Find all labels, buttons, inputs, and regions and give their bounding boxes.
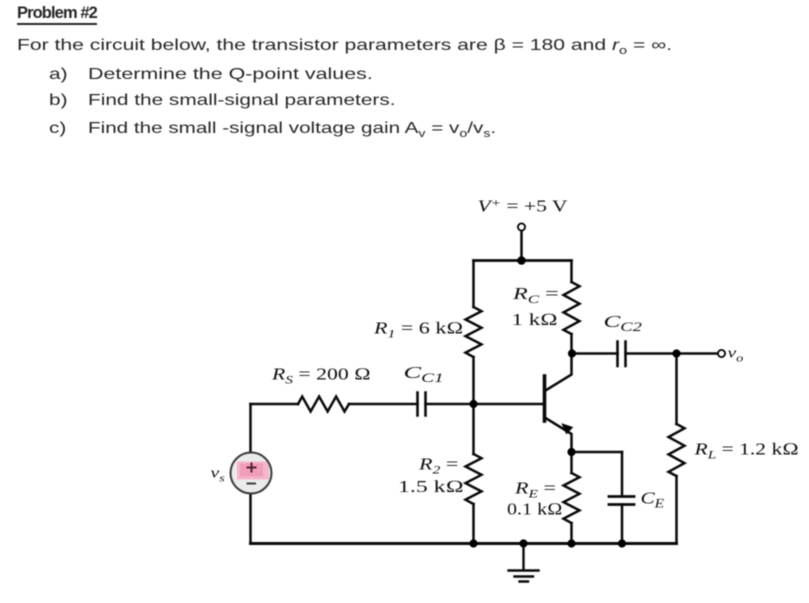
wire source top: [249, 404, 252, 452]
svg-text:RS = 200 Ω: RS = 200 Ω: [271, 366, 371, 387]
node top rail: [517, 256, 526, 265]
transistor Q1 emitter arrow: [562, 424, 572, 434]
capacitor CC2: [618, 342, 626, 367]
svg-text:RE =: RE =: [514, 479, 556, 501]
resistor RC: [564, 282, 580, 334]
wire R2 bottom: [472, 504, 475, 544]
terminal vo: [718, 350, 725, 357]
wire input left: [251, 403, 299, 406]
wire R1 top: [472, 261, 475, 308]
wire RC bottom: [570, 334, 573, 354]
transistor Q1 emitter lead: [546, 418, 572, 452]
svg-text:0.1 kΩ: 0.1 kΩ: [507, 500, 562, 519]
svg-text:R2 =: R2 =: [418, 455, 458, 477]
wire emitter to CE: [572, 451, 623, 454]
svg-text:RL = 1.2 kΩ: RL = 1.2 kΩ: [693, 441, 798, 462]
wire RE top: [570, 452, 573, 473]
transistor Q1 collector lead: [546, 354, 572, 391]
resistor R1: [466, 307, 482, 357]
wire source bottom: [249, 494, 252, 544]
item b: [49, 92, 68, 110]
svg-text:1 kΩ: 1 kΩ: [512, 311, 558, 330]
svg-text:vo: vo: [728, 345, 744, 365]
svg-text:1.5 kΩ: 1.5 kΩ: [398, 478, 464, 496]
svg-text:RC =: RC =: [512, 284, 559, 307]
terminal V+: [518, 223, 525, 230]
resistor R2: [466, 454, 482, 504]
wire collector to CC2: [572, 352, 618, 355]
svg-text:CC1: CC1: [404, 363, 444, 385]
node collector: [568, 349, 576, 357]
node base: [469, 400, 477, 408]
wire CE bottom: [621, 505, 624, 544]
node rail ground: [519, 539, 527, 547]
node rail R2: [469, 539, 477, 547]
node rail CE: [618, 539, 626, 547]
wire V+ drop: [520, 231, 523, 261]
wire CC1 to base: [426, 403, 543, 406]
resistor RE: [564, 473, 580, 523]
wire RS to CC1: [349, 403, 418, 406]
transistor Q1 base bar: [543, 376, 547, 421]
svg-text:vs: vs: [211, 465, 225, 485]
wire RE bottom: [570, 523, 573, 544]
node output: [672, 349, 680, 357]
wire R1 bottom: [472, 357, 475, 404]
node rail RE: [567, 539, 575, 547]
problem statement: [17, 37, 672, 57]
svg-text:CC2: CC2: [604, 312, 642, 334]
wire CE top: [621, 452, 624, 496]
wire CC2 to output node: [626, 352, 719, 355]
resistor RL: [669, 424, 685, 476]
title: [17, 4, 97, 25]
capacitor CC1: [418, 393, 426, 416]
wire RC top: [570, 261, 573, 283]
item c: [49, 120, 66, 138]
source vs: [231, 453, 272, 494]
svg-text:CE: CE: [641, 489, 665, 511]
wire RL top: [675, 354, 678, 425]
wire bottom rail: [251, 542, 677, 545]
resistor RS: [298, 397, 349, 412]
wire R2 top: [472, 404, 475, 454]
wire top rail: [474, 259, 572, 262]
ground: [509, 544, 539, 582]
node emitter: [567, 448, 575, 456]
capacitor CE: [609, 497, 634, 505]
item a: [49, 66, 68, 84]
wire RL bottom: [675, 476, 678, 544]
svg-text:R1 = 6 kΩ: R1 = 6 kΩ: [373, 319, 463, 341]
svg-text:V+ = +5 V: V+ = +5 V: [478, 196, 568, 216]
